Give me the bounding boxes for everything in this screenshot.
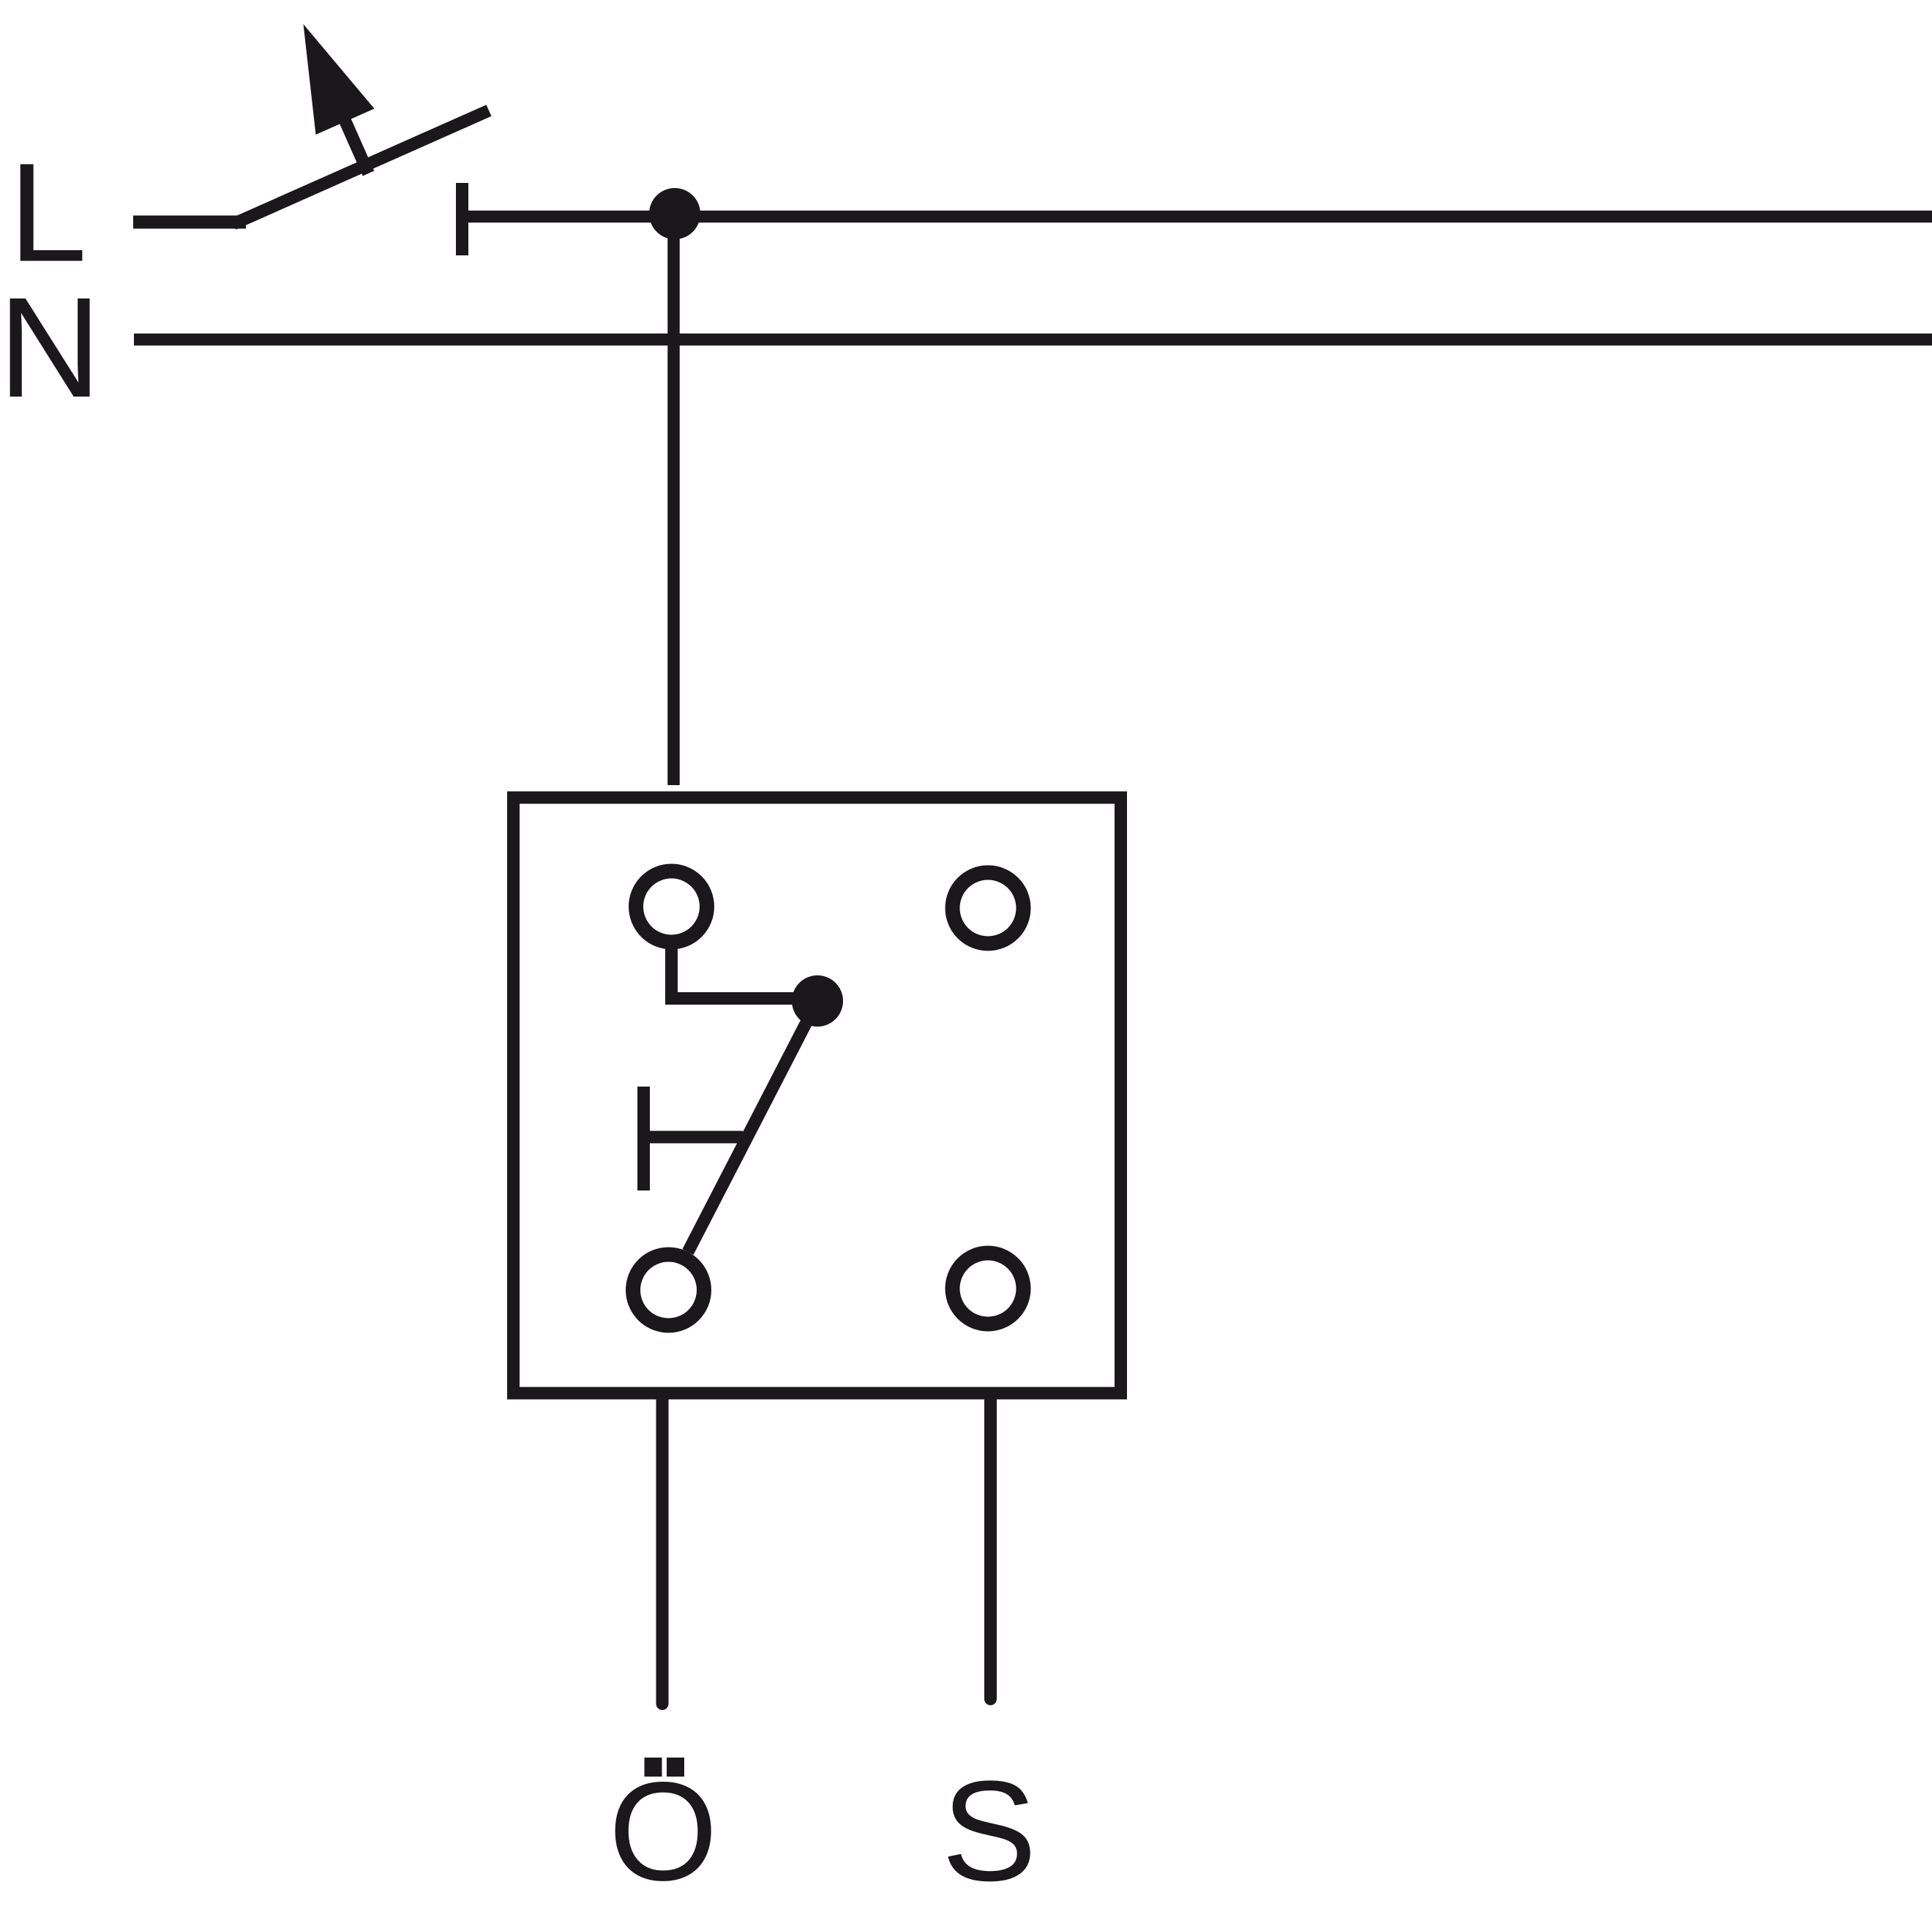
terminal circle top-left <box>636 871 707 942</box>
relay box K1 <box>514 798 1121 1393</box>
terminal circle top-right <box>953 873 1024 944</box>
switch S1 actuator arrowhead <box>304 24 375 135</box>
pin S wire <box>984 1393 997 1699</box>
label Ö umlaut dots <box>645 1758 662 1777</box>
switch S1 blade <box>233 110 489 224</box>
wire corner to pivot <box>665 992 817 1005</box>
junction dot <box>649 188 700 239</box>
switch S1 actuator arrow stem <box>342 115 369 173</box>
pivot dot <box>792 975 843 1027</box>
wire from TL terminal down <box>665 948 678 1005</box>
wire vertical drop <box>667 217 680 785</box>
wire N bus <box>134 334 1932 346</box>
svg-text:N: N <box>0 268 101 427</box>
switch S1 fixed contact bar <box>456 183 468 255</box>
svg-text:O: O <box>609 1752 718 1910</box>
actuator T bar <box>637 1087 650 1190</box>
switch K1 blade <box>688 1001 817 1252</box>
terminal circle bottom-right <box>953 1253 1024 1324</box>
actuator T link <box>650 1131 743 1144</box>
wire L lead-in <box>133 216 246 229</box>
wire L bus <box>468 211 1932 223</box>
terminal circle bottom-left <box>633 1255 704 1326</box>
svg-text:S: S <box>942 1752 1037 1911</box>
pin Ö wire <box>656 1393 669 1704</box>
